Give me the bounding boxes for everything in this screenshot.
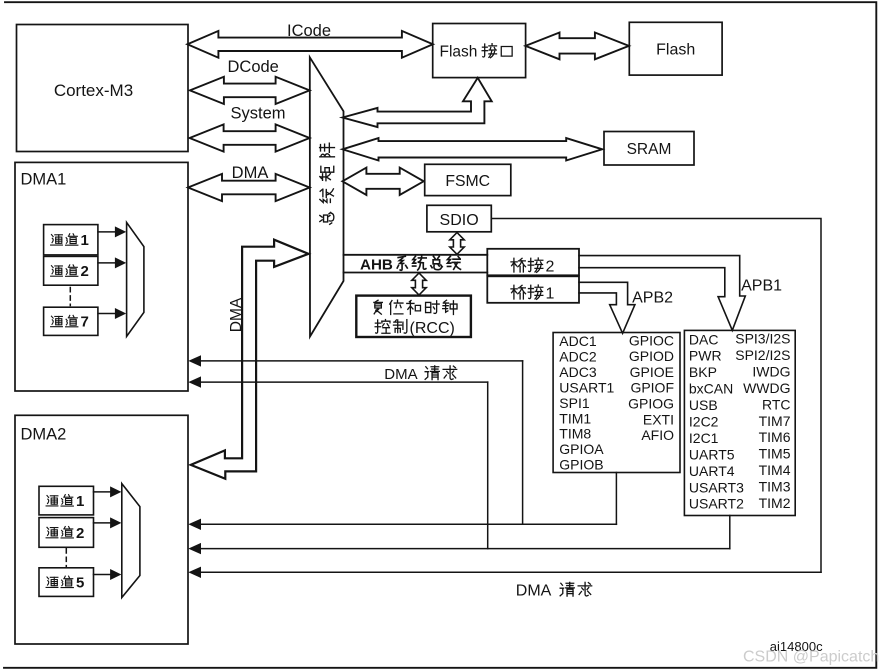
arrow AHB bus to RCC — [412, 273, 426, 295]
svg-text:APB2: APB2 — [632, 290, 673, 307]
svg-text:bxCAN: bxCAN — [689, 381, 733, 397]
svg-text:TIM5: TIM5 — [759, 446, 791, 462]
svg-text:2: 2 — [81, 263, 89, 280]
box DMA1 channel 通道2 — [44, 256, 98, 285]
box DMA1 channel 通道1 — [44, 225, 98, 255]
svg-text:USART3: USART3 — [689, 479, 744, 495]
wire bridge2 to APB1 arrow — [579, 256, 745, 331]
svg-text:TIM7: TIM7 — [759, 413, 791, 429]
svg-text:APB1: APB1 — [741, 278, 782, 295]
wire SDIO to DMA request line 3 — [493, 219, 821, 573]
svg-text:System: System — [230, 105, 285, 123]
arrow Flash interface to Flash — [526, 33, 629, 60]
svg-text:CSDN @Papicatch: CSDN @Papicatch — [743, 648, 879, 665]
svg-text:USB: USB — [689, 397, 718, 413]
svg-text:GPIOE: GPIOE — [630, 364, 674, 380]
svg-text:GPIOF: GPIOF — [630, 380, 674, 396]
arrow DMA2 channel to mux — [94, 486, 122, 497]
svg-text:BKP: BKP — [689, 364, 717, 380]
mux DMA1 — [127, 223, 144, 337]
svg-text:UART5: UART5 — [689, 446, 735, 462]
svg-text:TIM2: TIM2 — [759, 495, 791, 511]
box DMA1 channel 通道7 — [44, 307, 98, 335]
box DMA2 channel 通道1 — [39, 486, 94, 515]
arrow SDIO to AHB bus — [450, 233, 464, 255]
box DMA2 — [15, 415, 188, 644]
box Cortex-M3 — [17, 25, 189, 152]
arrow bus matrix to FSMC — [342, 168, 423, 195]
box FSMC — [425, 164, 511, 195]
svg-text:1: 1 — [81, 232, 89, 249]
svg-text:ADC2: ADC2 — [559, 348, 597, 364]
svg-text:PWR: PWR — [689, 348, 722, 364]
svg-text:GPIOC: GPIOC — [629, 332, 674, 348]
svg-text:GPIOG: GPIOG — [628, 396, 674, 412]
svg-text:DMA: DMA — [228, 297, 245, 332]
box bridge 桥接1 — [487, 276, 579, 303]
wire DMA request line 2 branch up to DMA1 — [487, 382, 489, 548]
wire DMA request line 1 branch up to DMA1 — [522, 361, 524, 524]
svg-text:Flash: Flash — [656, 42, 695, 59]
label DMA 请求 upper — [384, 366, 456, 383]
box APB2 peripherals — [553, 332, 680, 472]
label DMA 请求 lower — [516, 582, 592, 599]
svg-text:2: 2 — [546, 259, 555, 276]
svg-text:SPI3/I2S: SPI3/I2S — [735, 331, 790, 347]
svg-text:IWDG: IWDG — [752, 363, 790, 379]
box APB1 peripherals — [684, 330, 795, 515]
svg-text:DAC: DAC — [689, 331, 719, 347]
bus matrix 总线矩阵 — [310, 57, 344, 336]
svg-text:DMA: DMA — [516, 583, 552, 600]
svg-text:TIM1: TIM1 — [559, 410, 591, 426]
wire DMA request line 3 into DMA2 — [188, 567, 821, 578]
svg-text:DMA: DMA — [384, 366, 417, 383]
svg-text:EXTI: EXTI — [643, 411, 674, 427]
svg-text:DMA1: DMA1 — [21, 171, 67, 189]
svg-text:DCode: DCode — [228, 58, 279, 76]
svg-text:AFIO: AFIO — [641, 427, 674, 443]
svg-text:AHB: AHB — [360, 256, 393, 273]
box Flash 接口 — [433, 24, 526, 78]
svg-text:GPIOA: GPIOA — [559, 441, 604, 457]
wire APB1 box to DMA request line 2 — [729, 516, 731, 549]
svg-text:SDIO: SDIO — [440, 212, 479, 229]
svg-text:I2C2: I2C2 — [689, 414, 719, 430]
mux DMA2 — [122, 484, 140, 598]
svg-text:ADC3: ADC3 — [559, 364, 597, 380]
arrow DMA1 channel to mux — [98, 257, 126, 268]
arrow ICode bus Cortex-M3 to Flash interface — [187, 22, 433, 58]
arrow bus matrix to SRAM — [343, 138, 603, 160]
svg-text:TIM6: TIM6 — [759, 429, 791, 445]
wire APB2 box to DMA request line 1 — [615, 473, 617, 525]
wire DMA request into DMA1 line 2 — [188, 376, 487, 387]
svg-text:(RCC): (RCC) — [410, 320, 455, 337]
svg-text:SPI1: SPI1 — [559, 395, 590, 411]
svg-text:DMA2: DMA2 — [21, 426, 67, 444]
svg-text:USART2: USART2 — [689, 496, 744, 512]
svg-text:TIM8: TIM8 — [559, 426, 591, 442]
wire DMA request line 1 into DMA2 — [188, 519, 616, 530]
wire DMA request line 2 into DMA2 — [188, 543, 730, 554]
box SDIO — [427, 205, 491, 232]
arrow DMA2 channel to mux — [94, 569, 122, 580]
svg-text:USART1: USART1 — [559, 379, 614, 395]
arrow DMA1 channel to mux — [98, 226, 126, 237]
box DMA1 — [15, 162, 188, 391]
box DMA2 channel 通道2 — [39, 518, 94, 548]
svg-text:FSMC: FSMC — [445, 173, 490, 190]
box DMA2 channel 通道5 — [39, 568, 94, 597]
svg-text:Cortex-M3: Cortex-M3 — [54, 81, 133, 100]
box Flash — [629, 22, 722, 75]
box RCC 复位和时钟控制 — [356, 296, 471, 338]
svg-text:WWDG: WWDG — [743, 380, 790, 396]
arrow DMA1 channel to mux — [98, 308, 126, 319]
svg-text:GPIOD: GPIOD — [629, 348, 674, 364]
svg-text:RTC: RTC — [762, 396, 791, 412]
svg-text:DMA: DMA — [232, 164, 269, 182]
svg-text:1: 1 — [76, 493, 84, 510]
svg-text:SRAM: SRAM — [627, 141, 672, 158]
wire bridge1 to APB2 arrow — [579, 282, 635, 333]
svg-text:TIM3: TIM3 — [759, 479, 791, 495]
svg-text:I2C1: I2C1 — [689, 430, 719, 446]
svg-text:ICode: ICode — [287, 22, 331, 40]
box SRAM — [604, 132, 694, 166]
svg-text:UART4: UART4 — [689, 463, 735, 479]
svg-text:SPI2/I2S: SPI2/I2S — [735, 347, 790, 363]
arrow DMA2 channel to mux — [94, 517, 122, 528]
bus AHB 系统总线 — [344, 255, 488, 273]
box bridge 桥接2 — [487, 249, 579, 276]
svg-text:1: 1 — [546, 286, 555, 303]
dashed link DMA1 channels — [69, 288, 71, 306]
svg-text:Flash: Flash — [440, 44, 478, 61]
arrow DMA bus DMA1 to bus matrix — [188, 164, 310, 201]
svg-text:2: 2 — [76, 525, 84, 542]
bent arrow bus matrix to Flash interface — [343, 78, 492, 127]
bent arrow DMA2 to bus matrix — [191, 240, 309, 479]
svg-text:TIM4: TIM4 — [759, 462, 791, 478]
wire DMA request into DMA1 line 1 — [188, 355, 522, 366]
svg-text:5: 5 — [76, 575, 84, 592]
arrow DCode bus Cortex-M3 to bus matrix — [190, 58, 310, 104]
dashed link DMA2 channels — [65, 549, 67, 567]
svg-text:GPIOB: GPIOB — [559, 457, 603, 473]
svg-text:ADC1: ADC1 — [559, 333, 597, 349]
arrow System bus Cortex-M3 to bus matrix — [190, 105, 310, 152]
svg-text:7: 7 — [81, 314, 89, 331]
